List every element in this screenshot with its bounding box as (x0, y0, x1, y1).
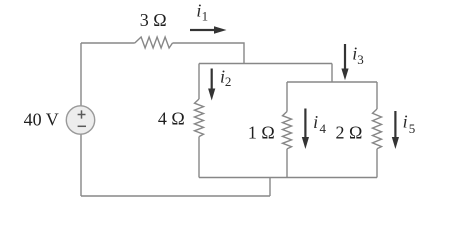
resistor R1 3 ohm (135, 37, 173, 48)
wire bottom shared edge (199, 177, 377, 179)
svg-text:3: 3 (357, 52, 364, 67)
voltage source plus sign (78, 110, 86, 118)
wire bottom (81, 195, 270, 197)
wire middle box top (199, 63, 332, 65)
svg-text:i: i (403, 112, 408, 132)
wire middle box left lower (198, 137, 200, 178)
voltage source V1 40V (66, 106, 94, 134)
svg-text:1 Ω: 1 Ω (248, 122, 275, 142)
svg-text:2: 2 (225, 74, 232, 89)
wire right box top (287, 81, 377, 83)
arrow i3 (341, 44, 348, 80)
arrow i1 (190, 26, 227, 33)
wire bottom jog (269, 178, 271, 197)
label i4 (313, 112, 326, 136)
label i5 (403, 112, 416, 136)
wire top right (173, 43, 245, 64)
resistor R3 1 ohm (283, 112, 292, 149)
svg-text:i: i (313, 112, 318, 132)
svg-text:1: 1 (202, 8, 209, 23)
arrow i4 (302, 109, 309, 150)
wire top left (81, 42, 135, 44)
svg-text:2 Ω: 2 Ω (336, 123, 363, 143)
wire right box left lower (286, 149, 288, 178)
wire left branch (source branch) (80, 43, 82, 196)
wire middle box right (331, 64, 333, 83)
arrow i5 (392, 111, 399, 149)
wire middle box left upper (198, 64, 200, 100)
label i3 (352, 44, 363, 68)
svg-text:4 Ω: 4 Ω (158, 108, 185, 128)
label i2 (220, 66, 231, 89)
label i1 (196, 0, 208, 23)
wire right box right lower (376, 149, 378, 178)
resistor R4 2 ohm (373, 109, 382, 149)
wire right box left upper (286, 82, 288, 112)
svg-text:5: 5 (409, 121, 416, 136)
resistor R2 4 ohm (195, 99, 204, 137)
svg-text:4: 4 (320, 121, 327, 136)
wire right box right upper (376, 82, 378, 109)
svg-text:3 Ω: 3 Ω (140, 10, 167, 30)
arrow i2 (208, 69, 215, 101)
voltage source minus sign (78, 125, 86, 127)
svg-text:40 V: 40 V (24, 110, 59, 130)
